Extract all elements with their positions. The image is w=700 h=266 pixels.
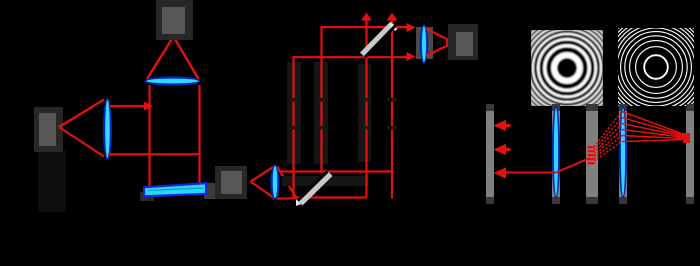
red grating patch xyxy=(588,146,595,164)
beam: arrow3 to lens L5 xyxy=(504,172,556,174)
beam wedge from S1 to lens L1 xyxy=(59,100,104,157)
beam: vertical column right edge xyxy=(198,85,200,186)
reflected arrow 3 xyxy=(494,167,507,178)
beam: L1 upper ray with arrow xyxy=(110,105,146,107)
source S3 / detector box shared xyxy=(215,166,247,199)
output arrows up xyxy=(361,13,398,21)
plate P2 (right bar) xyxy=(686,104,694,204)
stand below S1 xyxy=(38,150,66,212)
plate P1 (left bar) xyxy=(486,104,494,204)
beam: L3 to BS1 converging xyxy=(277,167,297,199)
lens L5 mount bar xyxy=(552,104,560,204)
sample-region shading xyxy=(282,62,371,186)
lens L2 (horizontal) xyxy=(145,76,201,86)
beam: right vertical V3 xyxy=(365,16,367,198)
lens L5 xyxy=(552,106,560,199)
beam wedge from lens L2 up to source S2 xyxy=(147,37,199,80)
interferogram image 1 xyxy=(508,9,626,127)
focus spot xyxy=(683,133,690,143)
lens L6 mount bar xyxy=(619,104,627,204)
beam: lens L5 to grating patch xyxy=(556,158,590,173)
beam splitter BS1 xyxy=(296,169,333,206)
beam: left vertical V1 xyxy=(292,56,294,198)
source S1 (left gray box) xyxy=(34,107,63,152)
arrowhead at focus xyxy=(446,39,455,47)
lens L1 (vertical) xyxy=(103,98,112,160)
interferogram image 2 xyxy=(599,10,700,123)
detector D2 (gray box) xyxy=(448,24,478,60)
reflected arrow 2 xyxy=(494,144,511,155)
mount shadow of tilted plate xyxy=(140,183,215,201)
focused fan from L6 to P2 xyxy=(622,112,687,142)
grating bar G1 xyxy=(586,104,598,204)
beam: L1 lower ray xyxy=(108,153,200,155)
beam: bottom horizontal H6 xyxy=(297,196,367,198)
reflected arrow 1 xyxy=(494,120,511,131)
beam: left vertical V2 xyxy=(320,26,322,173)
beam: top horizontal H1 xyxy=(321,26,411,28)
beam: top horizontal H2 xyxy=(293,56,411,58)
beam wedge S3 to lens L3 xyxy=(251,166,276,199)
beam: right vertical V4 xyxy=(391,16,393,199)
lens L3 xyxy=(270,164,279,200)
tilted mirror plate M1 xyxy=(144,183,206,196)
source S2 (top gray box) xyxy=(156,0,193,40)
beam: vertical column left edge xyxy=(148,85,150,191)
lens L4 mount xyxy=(416,27,433,59)
lens L6 xyxy=(619,106,627,199)
beam waist knots xyxy=(292,98,393,129)
beam: lower horizontal H5 xyxy=(280,170,392,172)
lens L4 xyxy=(420,24,428,64)
beam: L4 converging to D2 xyxy=(426,29,453,57)
beam splitter BS2 xyxy=(360,22,398,59)
diffracted fan to lens L6 (dashed) xyxy=(594,112,622,162)
